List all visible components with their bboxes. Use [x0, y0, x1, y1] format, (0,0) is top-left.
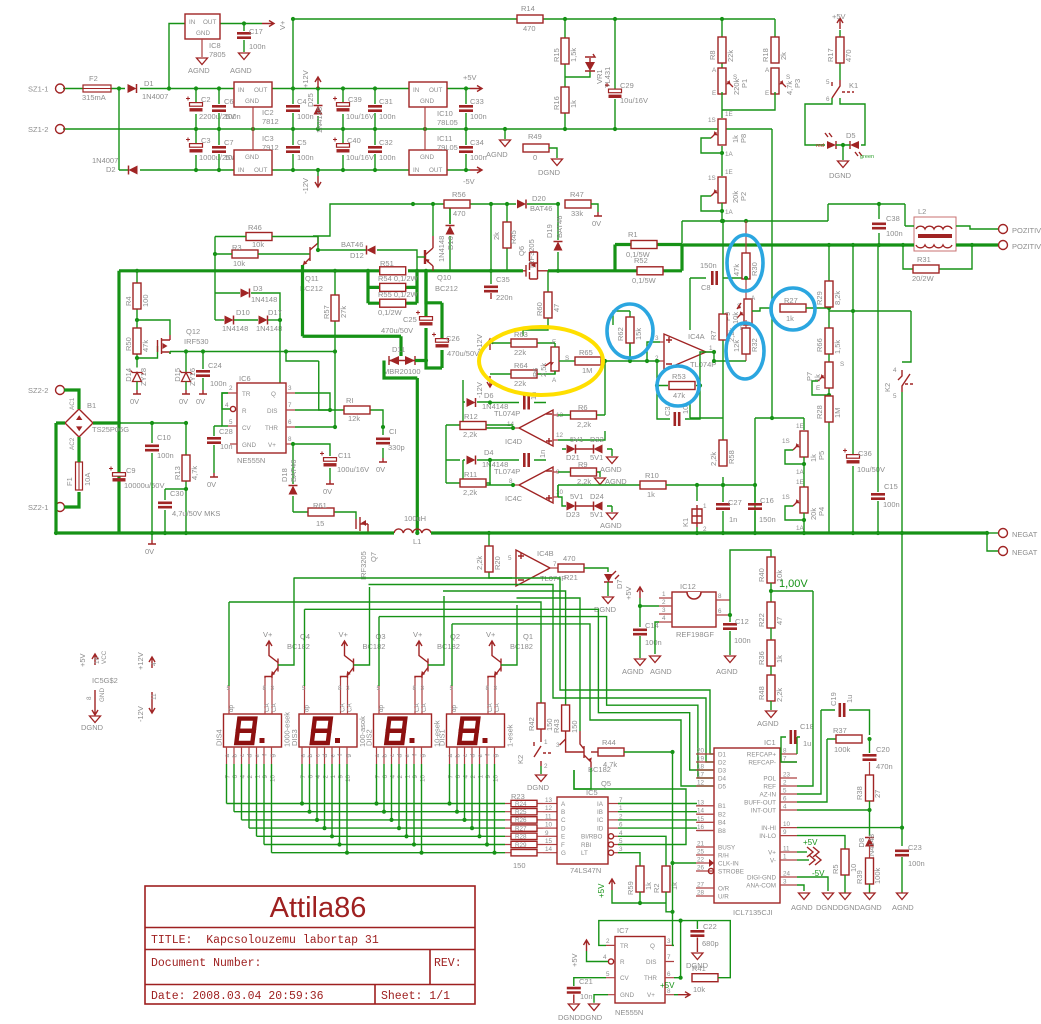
- terminal NEGAT 2: [987, 533, 998, 551]
- svg-text:22k: 22k: [514, 379, 526, 388]
- wire segment drops DIS4: [227, 764, 272, 853]
- resistor R27 1k: [780, 304, 806, 312]
- svg-text:C23: C23: [908, 843, 922, 852]
- voltage regulator IC8 7805: [185, 14, 220, 39]
- svg-text:A: A: [712, 67, 717, 74]
- svg-text:100n: 100n: [210, 379, 227, 388]
- svg-text:G: G: [561, 850, 566, 857]
- svg-text:dp: dp: [228, 704, 235, 712]
- svg-text:AGND: AGND: [791, 903, 813, 912]
- svg-text:9: 9: [545, 830, 549, 837]
- svg-text:3: 3: [667, 938, 671, 945]
- svg-text:DGND: DGND: [816, 903, 839, 912]
- svg-text:+5V: +5V: [624, 586, 633, 600]
- trimmer P4 20k: [793, 487, 808, 513]
- svg-text:6: 6: [288, 419, 292, 426]
- svg-text:R29: R29: [515, 842, 527, 849]
- wire 555 DIS: [295, 409, 330, 411]
- svg-text:D: D: [561, 825, 566, 832]
- svg-text:1N4148: 1N4148: [315, 107, 324, 133]
- svg-text:10u/16V: 10u/16V: [620, 96, 648, 105]
- svg-text:1N4148: 1N4148: [251, 295, 277, 304]
- svg-text:C29: C29: [620, 81, 634, 90]
- svg-text:b: b: [232, 754, 239, 758]
- svg-text:S: S: [840, 361, 844, 368]
- svg-text:d: d: [397, 754, 404, 758]
- svg-text:SZ2-1: SZ2-1: [28, 503, 48, 512]
- svg-text:R41: R41: [692, 964, 706, 973]
- resistor R46 10k: [246, 233, 272, 241]
- svg-text:1: 1: [405, 775, 412, 779]
- svg-text:3: 3: [783, 879, 787, 886]
- resistor R47 33k: [565, 200, 591, 208]
- svg-text:100k: 100k: [873, 867, 882, 884]
- svg-text:20/2W: 20/2W: [912, 274, 935, 283]
- svg-text:DGND: DGND: [829, 171, 852, 180]
- svg-text:4: 4: [463, 775, 470, 779]
- svg-text:470n: 470n: [876, 762, 893, 771]
- svg-text:D5: D5: [718, 783, 727, 790]
- svg-text:100n: 100n: [886, 229, 903, 238]
- wire R31 loop: [903, 245, 972, 269]
- supply +5V REF198: [637, 587, 643, 598]
- svg-text:D16: D16: [446, 236, 455, 250]
- svg-text:18: 18: [697, 764, 705, 771]
- svg-text:4: 4: [240, 775, 247, 779]
- svg-text:5V1: 5V1: [590, 453, 603, 462]
- svg-text:10: 10: [556, 489, 564, 496]
- svg-text:CA: CA: [494, 702, 501, 712]
- wire dp DIS3: [304, 609, 306, 686]
- ground IC7 gnd: [594, 995, 608, 1003]
- svg-text:IRF530: IRF530: [184, 337, 209, 346]
- wire IC7 reset to +5V: [587, 951, 609, 962]
- svg-text:DIS4: DIS4: [215, 729, 224, 746]
- svg-text:1N4148: 1N4148: [256, 324, 282, 333]
- wire IC8 output to V+: [220, 23, 262, 25]
- resistor R14 470: [517, 15, 543, 23]
- svg-text:e: e: [477, 754, 484, 758]
- svg-text:R/H: R/H: [718, 852, 729, 859]
- capacitor C6 100n: [218, 89, 220, 130]
- svg-text:5V1: 5V1: [590, 510, 603, 519]
- svg-text:IC6: IC6: [239, 374, 251, 383]
- wire D11 connections thick: [384, 361, 442, 534]
- svg-text:11: 11: [151, 693, 158, 700]
- svg-text:BI/RBO: BI/RBO: [581, 834, 602, 841]
- svg-text:-12V: -12V: [136, 706, 145, 722]
- wire Q11 emitter rail thick: [303, 265, 402, 356]
- capacitor C9 10000u/50V: [109, 467, 126, 480]
- capacitor C17 100n: [243, 24, 245, 53]
- svg-text:D11: D11: [392, 345, 405, 354]
- svg-text:14: 14: [697, 808, 705, 815]
- wire weave w1 Q4 base to D5: [294, 578, 715, 754]
- wire output row to C16: [723, 484, 755, 486]
- svg-text:RI: RI: [346, 396, 354, 405]
- svg-text:100n: 100n: [908, 859, 925, 868]
- svg-text:a: a: [374, 754, 381, 758]
- svg-text:POZITIV: POZITIV: [1012, 242, 1041, 251]
- svg-text:RBI: RBI: [581, 842, 592, 849]
- capacitor C30 4,7u/50V MKS: [165, 489, 186, 533]
- svg-text:R50: R50: [124, 337, 133, 351]
- svg-text:dp: dp: [451, 704, 458, 712]
- svg-text:1E: 1E: [796, 423, 804, 430]
- svg-text:D24: D24: [590, 492, 604, 501]
- svg-text:3: 3: [271, 685, 275, 692]
- svg-text:1: 1: [783, 854, 787, 861]
- svg-text:f: f: [262, 754, 269, 756]
- svg-text:4,7u/50V MKS: 4,7u/50V MKS: [172, 509, 220, 518]
- svg-text:-12V: -12V: [475, 382, 484, 398]
- supply arrow +12V: [315, 77, 321, 88]
- svg-text:D2: D2: [106, 165, 116, 174]
- svg-text:IC1: IC1: [764, 738, 776, 747]
- svg-text:D23: D23: [566, 510, 580, 519]
- svg-text:8: 8: [86, 696, 93, 700]
- svg-text:R3: R3: [232, 243, 242, 252]
- svg-text:1n: 1n: [729, 515, 737, 524]
- svg-text:C38: C38: [886, 214, 900, 223]
- svg-text:R29: R29: [815, 291, 824, 305]
- svg-text:27: 27: [697, 882, 705, 889]
- display pins top DIS1: [452, 678, 495, 714]
- svg-text:79L05: 79L05: [437, 143, 458, 152]
- svg-text:12: 12: [556, 432, 564, 439]
- capacitor C14 100n: [633, 630, 647, 634]
- svg-text:R54 0,1/2W: R54 0,1/2W: [378, 274, 419, 283]
- svg-text:OUT: OUT: [254, 87, 267, 94]
- svg-text:8: 8: [783, 748, 787, 755]
- svg-text:INT-OUT: INT-OUT: [751, 807, 776, 814]
- resistor R39 100k: [869, 846, 871, 861]
- svg-text:1: 1: [478, 775, 485, 779]
- svg-text:7812: 7812: [262, 117, 279, 126]
- svg-text:0V: 0V: [130, 397, 139, 406]
- svg-text:1N4148: 1N4148: [222, 324, 248, 333]
- resistor R20 2,2k: [489, 533, 512, 578]
- svg-text:R60: R60: [535, 302, 544, 316]
- resistor R32 12k: [745, 320, 747, 361]
- capacitor C23 100n: [895, 851, 909, 855]
- diode D16 1N4148: [449, 204, 451, 271]
- svg-text:3: 3: [346, 685, 350, 692]
- svg-text:SZ1-2: SZ1-2: [28, 125, 48, 134]
- svg-text:1: 1: [330, 775, 337, 779]
- svg-text:D20: D20: [532, 194, 546, 203]
- wire IC7 TR loop: [599, 921, 698, 978]
- svg-text:D1: D1: [718, 751, 727, 758]
- svg-text:IN-LO: IN-LO: [759, 833, 776, 840]
- svg-text:P2: P2: [739, 192, 748, 201]
- wire 555 THR: [295, 352, 335, 428]
- svg-text:R20: R20: [493, 556, 502, 570]
- svg-text:b: b: [455, 754, 462, 758]
- svg-text:IC7: IC7: [617, 926, 629, 935]
- svg-text:R62: R62: [616, 327, 625, 341]
- transistor Q5 BC182: [583, 746, 585, 758]
- svg-text:5V1: 5V1: [570, 492, 583, 501]
- wire P3 to P8 rail: [722, 92, 775, 176]
- svg-text:10000u/50V: 10000u/50V: [124, 481, 164, 490]
- display pins top DIS3: [305, 678, 348, 714]
- ground AGND under C17: [239, 53, 250, 60]
- svg-text:3: 3: [556, 742, 560, 749]
- svg-text:2: 2: [247, 775, 254, 779]
- svg-text:BAT46: BAT46: [341, 240, 363, 249]
- svg-text:15: 15: [545, 838, 553, 845]
- diode D1 1N4007: [128, 84, 137, 93]
- wire IC8 input: [169, 24, 185, 89]
- svg-text:1n: 1n: [538, 450, 547, 458]
- wire Q5 emitter down: [574, 768, 591, 789]
- capacitor C24 100n: [202, 352, 204, 391]
- svg-text:B8: B8: [718, 828, 726, 835]
- trimmer P3 4,7k: [771, 68, 786, 94]
- svg-text:CV: CV: [620, 975, 630, 982]
- svg-text:1u: 1u: [845, 695, 854, 703]
- svg-text:R57: R57: [322, 305, 331, 319]
- svg-text:R14: R14: [521, 4, 535, 13]
- svg-text:R25: R25: [515, 809, 527, 816]
- svg-text:AGND: AGND: [716, 667, 738, 676]
- svg-text:22k: 22k: [514, 348, 526, 357]
- svg-text:5V1: 5V1: [570, 435, 583, 444]
- svg-text:AGND: AGND: [188, 66, 210, 75]
- capacitor C13 1n: [490, 402, 546, 404]
- capacitor C15 100n: [877, 245, 879, 533]
- svg-text:b: b: [382, 754, 389, 758]
- svg-text:D12: D12: [350, 251, 364, 260]
- transistor Q11 BC212: [309, 247, 311, 261]
- diode D11 MBR20100 x2: [389, 360, 415, 362]
- svg-text:6: 6: [667, 971, 671, 978]
- wire weave w6 dp2 to D3: [305, 609, 715, 770]
- svg-text:c: c: [315, 754, 322, 757]
- svg-text:R37: R37: [833, 726, 847, 735]
- resistor R18 2k: [771, 37, 779, 63]
- svg-text:CLK-IN: CLK-IN: [718, 860, 739, 867]
- resistor R38 27: [869, 762, 871, 778]
- svg-text:CA: CA: [271, 702, 278, 712]
- trimmer P8 1k: [711, 119, 726, 145]
- svg-text:DIS: DIS: [267, 408, 278, 415]
- svg-text:R53: R53: [672, 372, 686, 381]
- svg-text:CA: CA: [264, 702, 271, 712]
- capacitor C11 100u/16V: [320, 452, 337, 465]
- connector SZ2-2: [56, 386, 65, 395]
- svg-text:C17: C17: [249, 27, 263, 36]
- svg-text:10: 10: [783, 821, 791, 828]
- svg-text:IN: IN: [413, 167, 420, 174]
- resistor R65 1M: [575, 357, 601, 365]
- supply arrow V+ Q2: [416, 641, 422, 652]
- svg-text:100n: 100n: [157, 451, 174, 460]
- svg-text:AGND: AGND: [757, 719, 779, 728]
- diode D25 1N4148: [317, 89, 319, 130]
- svg-text:R5: R5: [831, 864, 840, 874]
- svg-text:C33: C33: [470, 97, 484, 106]
- svg-text:Date: 2008.03.04 20:59:36: Date: 2008.03.04 20:59:36: [151, 990, 324, 1003]
- switch K2 top: [898, 370, 910, 392]
- resistor R45 2k: [506, 204, 508, 271]
- svg-text:10n: 10n: [580, 992, 593, 1001]
- svg-text:7: 7: [288, 402, 292, 409]
- resistor R66 1,5k: [825, 328, 833, 354]
- svg-text:1S: 1S: [782, 438, 790, 445]
- svg-text:g: g: [492, 754, 499, 758]
- svg-text:100u/16V: 100u/16V: [337, 465, 369, 474]
- svg-text:5: 5: [229, 419, 233, 426]
- svg-text:TL074P: TL074P: [494, 467, 520, 476]
- wire base Q2: [428, 596, 444, 665]
- transistor Q4 BC182: [277, 659, 279, 672]
- svg-text:27k: 27k: [339, 306, 348, 318]
- svg-text:f: f: [337, 754, 344, 756]
- capacitor C29 10u/16V: [605, 83, 622, 96]
- svg-text:b: b: [307, 754, 314, 758]
- diode D12 BAT46: [318, 237, 417, 271]
- svg-text:47: 47: [775, 617, 784, 625]
- wire REF from 1,00V: [797, 591, 813, 786]
- svg-text:7: 7: [375, 775, 382, 779]
- svg-text:d: d: [322, 754, 329, 758]
- svg-text:K1: K1: [681, 518, 690, 527]
- svg-text:BC182: BC182: [363, 642, 386, 651]
- wire R2 node to clk: [666, 903, 673, 912]
- svg-text:V+: V+: [413, 630, 423, 639]
- wire y=204 node: [433, 204, 591, 236]
- svg-text:R45: R45: [509, 230, 518, 244]
- svg-text:P1: P1: [740, 79, 749, 88]
- resistor R40 10k: [767, 557, 775, 583]
- transistor Q2 BC182: [427, 659, 429, 672]
- svg-text:5: 5: [377, 685, 381, 692]
- svg-text:P3: P3: [793, 79, 802, 88]
- svg-text:R23: R23: [511, 792, 525, 801]
- svg-text:IC2: IC2: [262, 108, 274, 117]
- transistor Q10 BC212: [425, 248, 433, 266]
- wire BI/RBO to R2: [618, 836, 666, 868]
- wire dp DIS2: [378, 617, 380, 686]
- led D5 red/green dual: [827, 141, 836, 149]
- wire 555 reset: [222, 393, 230, 409]
- svg-text:74LS47N: 74LS47N: [570, 866, 601, 875]
- svg-text:SZ2-2: SZ2-2: [28, 386, 48, 395]
- svg-text:IN: IN: [189, 19, 196, 26]
- svg-text:C39: C39: [348, 95, 362, 104]
- resistor R13 4,7k: [152, 423, 186, 533]
- svg-text:C3: C3: [201, 136, 211, 145]
- svg-text:6: 6: [783, 796, 787, 803]
- svg-text:IC8: IC8: [209, 41, 221, 50]
- power symbol +12V pin4: [149, 657, 155, 668]
- capacitor C34 100n: [465, 129, 467, 170]
- svg-text:NE555N: NE555N: [615, 1008, 643, 1017]
- wire output bus thick to L2: [682, 243, 914, 247]
- svg-text:21: 21: [697, 841, 705, 848]
- svg-text:8: 8: [486, 685, 490, 692]
- svg-text:IC11: IC11: [437, 134, 452, 143]
- svg-text:D7: D7: [615, 579, 624, 589]
- svg-text:IC: IC: [597, 817, 604, 824]
- svg-text:8,2k: 8,2k: [833, 291, 842, 305]
- svg-text:2k: 2k: [492, 232, 501, 240]
- svg-text:8: 8: [338, 685, 342, 692]
- svg-text:D18: D18: [280, 468, 289, 482]
- svg-text:5: 5: [508, 555, 512, 562]
- diode D8 1N4148: [865, 838, 874, 847]
- svg-text:SZ1-1: SZ1-1: [28, 85, 48, 94]
- svg-text:C11: C11: [338, 451, 351, 460]
- resistor R30 47k: [745, 221, 747, 302]
- capacitor C32 100n: [374, 129, 376, 170]
- svg-text:10k: 10k: [252, 240, 264, 249]
- svg-text:100n: 100n: [645, 638, 662, 647]
- svg-text:10: 10: [270, 775, 277, 783]
- svg-text:AGND: AGND: [860, 903, 882, 912]
- svg-text:4,7k: 4,7k: [603, 760, 617, 769]
- svg-text:e: e: [254, 754, 261, 758]
- svg-text:R24: R24: [515, 801, 527, 808]
- svg-text:R1: R1: [628, 230, 638, 239]
- svg-text:C20: C20: [876, 745, 890, 754]
- zener pair D23/D24: [558, 497, 612, 506]
- svg-text:CA: CA: [347, 702, 354, 712]
- capacitor C2b 1n: [490, 459, 546, 461]
- svg-text:100n: 100n: [470, 112, 487, 121]
- svg-text:BUFF-OUT: BUFF-OUT: [744, 799, 776, 806]
- svg-text:DGNDDGND: DGNDDGND: [558, 1013, 603, 1022]
- svg-text:CA: CA: [340, 702, 347, 712]
- svg-text:0V: 0V: [179, 397, 188, 406]
- svg-text:IN-HI: IN-HI: [761, 825, 776, 832]
- svg-text:dp: dp: [378, 704, 385, 712]
- svg-text:1k: 1k: [786, 314, 794, 323]
- svg-text:F2: F2: [89, 74, 98, 83]
- svg-text:AGND: AGND: [600, 521, 622, 530]
- svg-text:REF198GF: REF198GF: [676, 630, 714, 639]
- svg-text:1N4007: 1N4007: [142, 92, 168, 101]
- svg-text:a: a: [224, 754, 231, 758]
- highlight blue ellipse R27: [771, 288, 815, 330]
- wire IN-HI long line: [797, 828, 902, 846]
- svg-text:g: g: [419, 754, 426, 758]
- svg-text:10: 10: [345, 775, 352, 783]
- svg-text:C5: C5: [297, 138, 307, 147]
- ground pin4 REF198: [655, 622, 659, 654]
- svg-text:CA: CA: [487, 702, 494, 712]
- transistor Q1 BC182: [500, 659, 502, 672]
- supply arrow -12V small: [487, 376, 493, 387]
- svg-text:14: 14: [545, 846, 553, 853]
- ground AGND rail stub: [504, 129, 506, 139]
- svg-text:REFCAP+: REFCAP+: [747, 751, 777, 758]
- svg-text:c: c: [389, 754, 396, 757]
- svg-text:C3: C3: [663, 406, 672, 416]
- svg-text:R48: R48: [757, 686, 766, 700]
- resistor R64 22k: [490, 366, 555, 374]
- capacitor C18 1u refcap: [781, 737, 800, 762]
- svg-text:5: 5: [227, 685, 231, 692]
- svg-text:2: 2: [783, 780, 787, 787]
- svg-text:VCC: VCC: [101, 650, 108, 664]
- wire P2 wiper loop: [701, 196, 722, 211]
- svg-text:25: 25: [697, 849, 705, 856]
- svg-text:1: 1: [544, 739, 548, 746]
- svg-text:4: 4: [662, 615, 666, 622]
